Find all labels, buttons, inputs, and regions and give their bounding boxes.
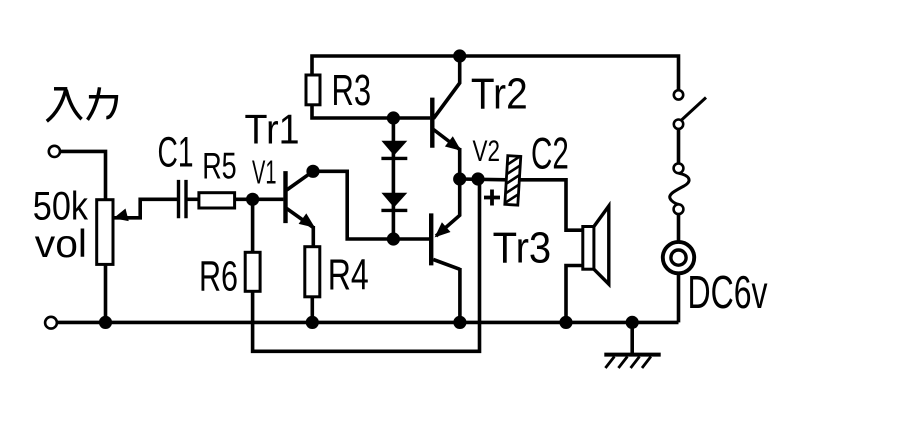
svg-text:R6: R6 xyxy=(199,252,238,300)
svg-text:50k: 50k xyxy=(33,184,89,228)
svg-text:R4: R4 xyxy=(328,250,369,299)
svg-text:V2: V2 xyxy=(473,135,501,168)
svg-text:C1: C1 xyxy=(158,129,194,177)
svg-text:R3: R3 xyxy=(332,67,372,115)
svg-text:vol: vol xyxy=(35,223,87,266)
svg-text:DC6v: DC6v xyxy=(688,266,769,318)
svg-text:C2: C2 xyxy=(531,130,569,179)
svg-text:Tr3: Tr3 xyxy=(493,224,552,272)
svg-text:V1: V1 xyxy=(252,154,277,191)
svg-text:Tr1: Tr1 xyxy=(245,106,300,153)
svg-text:R5: R5 xyxy=(202,145,237,186)
svg-text:Tr2: Tr2 xyxy=(471,70,528,119)
